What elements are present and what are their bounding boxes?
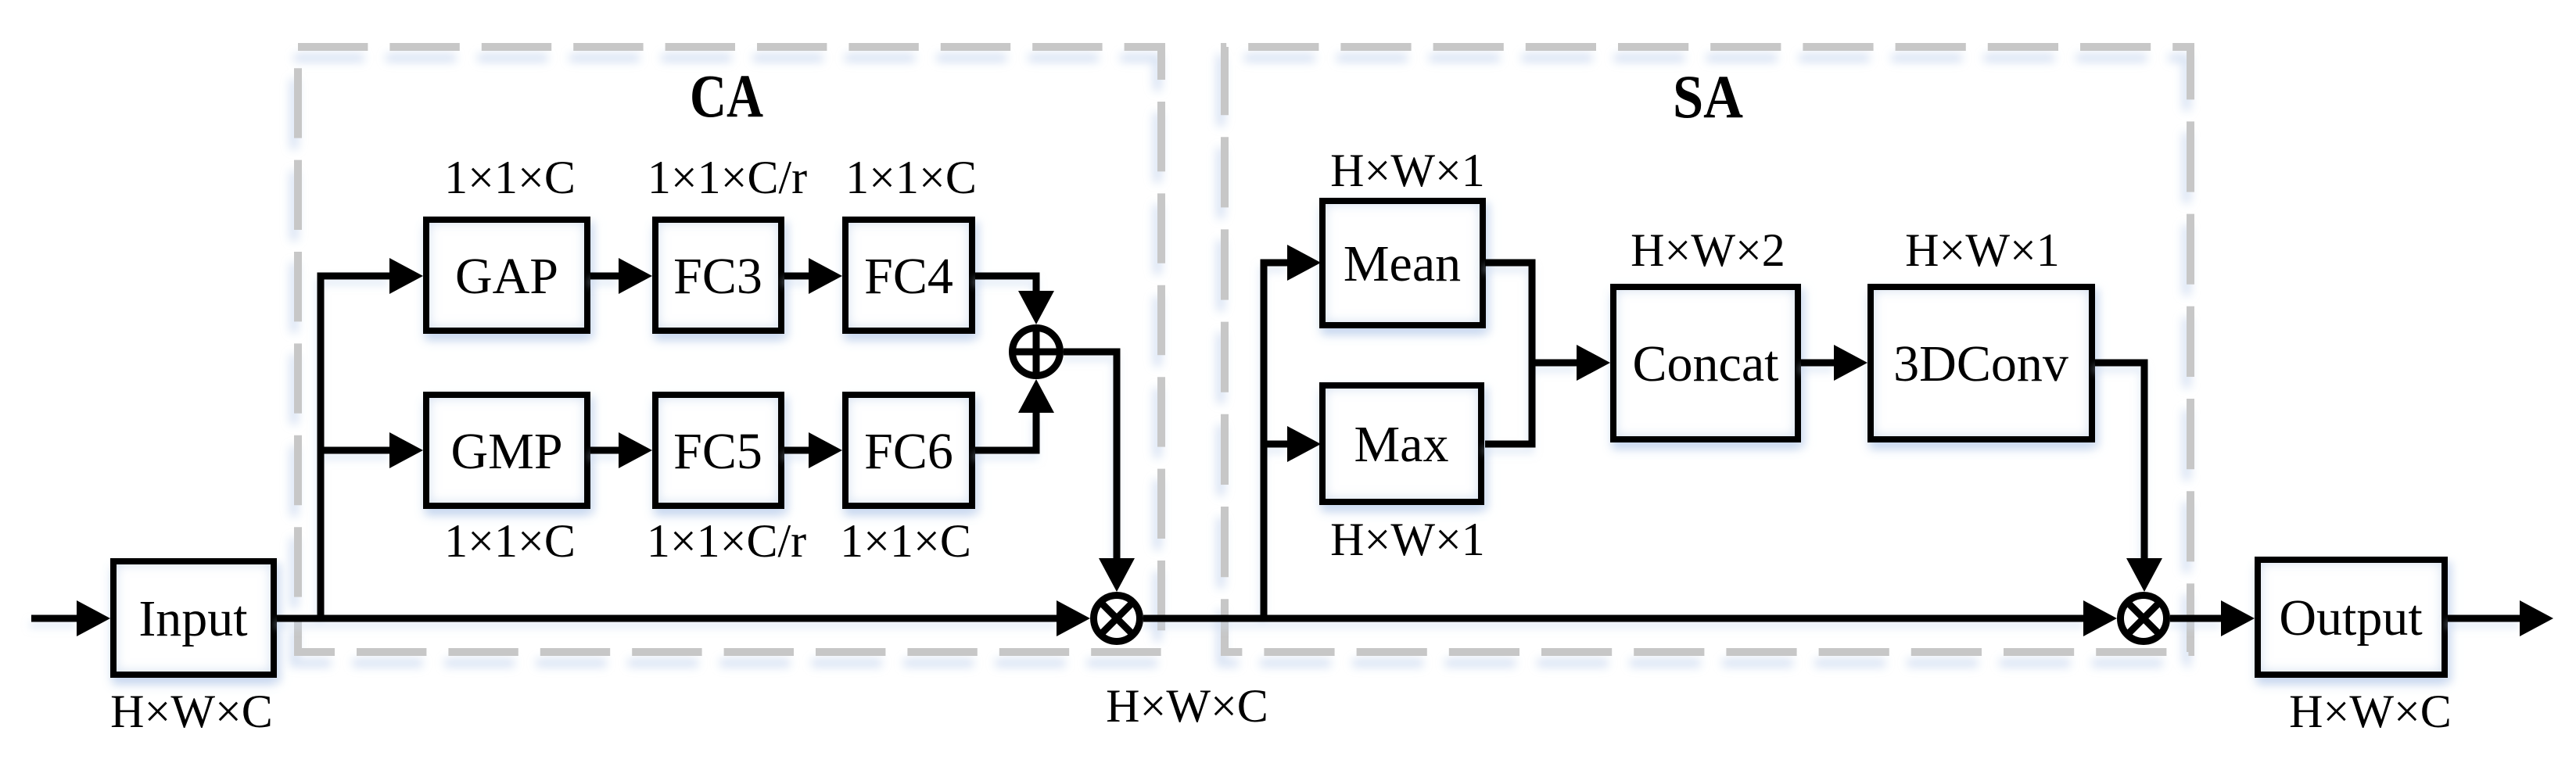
wire SA branch	[1264, 263, 1287, 618]
CA dashed frame	[298, 47, 1161, 652]
wire mul2 to Output	[2170, 615, 2222, 622]
svg-text:H×W×C: H×W×C	[110, 686, 273, 737]
arrow final out	[2520, 600, 2553, 636]
block FC5	[652, 392, 784, 509]
svg-text:H×W×2: H×W×2	[1631, 224, 1785, 276]
arrow into FC4	[809, 258, 842, 294]
arrow up into add	[1018, 379, 1054, 413]
svg-text:H×W×C: H×W×C	[1106, 680, 1268, 732]
svg-text:1×1×C/r: 1×1×C/r	[648, 152, 807, 203]
svg-text:FC5: FC5	[673, 423, 762, 480]
SA dashed frame	[1225, 47, 2190, 652]
block FC6	[842, 392, 975, 509]
block Output	[2255, 557, 2448, 678]
block 3DConv	[1867, 284, 2095, 442]
arrow into Input	[77, 600, 110, 636]
wire GAP to FC3	[590, 273, 619, 280]
svg-text:1×1×C: 1×1×C	[845, 152, 977, 203]
wire FC3 to FC4	[784, 273, 809, 280]
svg-text:1×1×C: 1×1×C	[444, 152, 576, 203]
wire mul1 to mul2	[1143, 615, 2085, 622]
arrow into Max	[1287, 426, 1321, 462]
wire FC4 to add	[975, 276, 1036, 292]
svg-text:Max: Max	[1354, 416, 1449, 473]
block Input	[110, 558, 277, 678]
svg-text:SA: SA	[1673, 63, 1743, 131]
arrow down into mul2	[2126, 558, 2162, 592]
block Concat	[1610, 284, 1801, 442]
block Mean	[1319, 198, 1486, 328]
block FC4	[842, 217, 975, 334]
arrow into FC3	[619, 258, 652, 294]
svg-text:CA: CA	[690, 62, 763, 130]
svg-text:1×1×C: 1×1×C	[444, 515, 576, 567]
arrow into mul1	[1057, 600, 1090, 636]
wire 3DConv to mul2	[2095, 363, 2144, 559]
svg-text:Mean: Mean	[1344, 235, 1461, 292]
arrow into Output	[2221, 600, 2255, 636]
svg-text:Output: Output	[2279, 589, 2422, 647]
wire Input to mul1	[277, 615, 1058, 622]
arrow down into mul1	[1099, 558, 1135, 592]
arrow into GMP	[389, 432, 423, 468]
block GMP	[423, 392, 590, 509]
wire Output out	[2448, 615, 2520, 622]
svg-text:H×W×C: H×W×C	[2289, 686, 2452, 737]
multiplier circle 2	[2121, 596, 2167, 642]
arrow into Concat	[1577, 345, 1610, 381]
arrow into mul2	[2083, 600, 2117, 636]
adder circle	[1013, 328, 1060, 376]
wire add to mul1	[1064, 352, 1117, 559]
wire Concat to 3DConv	[1801, 360, 1835, 367]
svg-text:FC3: FC3	[673, 248, 762, 305]
arrow into Mean	[1287, 245, 1321, 281]
svg-text:FC6: FC6	[864, 423, 953, 480]
svg-text:H×W×1: H×W×1	[1330, 514, 1485, 565]
svg-text:H×W×1: H×W×1	[1330, 145, 1485, 196]
arrow into 3DConv	[1834, 345, 1867, 381]
svg-text:FC4: FC4	[864, 248, 953, 305]
svg-text:GMP: GMP	[450, 423, 562, 480]
svg-text:Input: Input	[138, 590, 247, 647]
multiplier circle 1	[1094, 596, 1140, 642]
block FC3	[652, 217, 784, 334]
arrow into FC5	[619, 432, 652, 468]
wire FC5 to FC6	[784, 447, 809, 454]
wire Mean Max join	[1485, 263, 1532, 444]
wire CA branch	[321, 276, 389, 618]
svg-text:H×W×1: H×W×1	[1905, 224, 2060, 276]
svg-text:3DConv: 3DConv	[1893, 335, 2068, 392]
svg-text:1×1×C/r: 1×1×C/r	[647, 515, 806, 567]
svg-text:Concat: Concat	[1633, 335, 1779, 392]
wire FC6 to add	[975, 412, 1036, 450]
wire GMP to FC5	[590, 447, 619, 454]
wire join to Concat	[1532, 360, 1577, 367]
svg-text:1×1×C: 1×1×C	[840, 515, 971, 567]
arrow into GAP	[389, 258, 423, 294]
wire input feed	[31, 615, 77, 622]
block Max	[1319, 382, 1484, 505]
arrow down into add	[1018, 291, 1054, 324]
arrow into FC6	[809, 432, 842, 468]
block GAP	[423, 217, 590, 334]
svg-text:GAP: GAP	[455, 248, 558, 305]
